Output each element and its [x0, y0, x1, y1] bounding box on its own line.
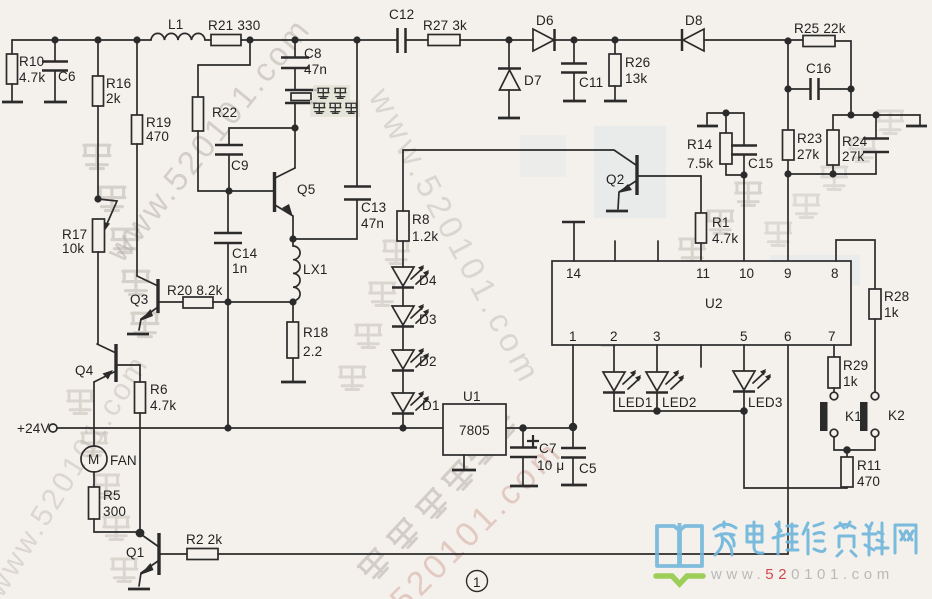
- svg-text:R22: R22: [212, 105, 237, 120]
- svg-text:C5: C5: [579, 461, 597, 476]
- wire C8 top lead: [294, 40, 296, 57]
- svg-text:R2 2k: R2 2k: [186, 532, 222, 547]
- ground under C6: [44, 101, 67, 104]
- wire R17 to Q4: [97, 252, 99, 344]
- svg-text:C6: C6: [58, 69, 76, 84]
- svg-text:D8: D8: [685, 13, 703, 28]
- wire R28 to K2: [874, 319, 876, 392]
- svg-text:7.5k: 7.5k: [687, 156, 713, 171]
- capacitor C6: [42, 62, 68, 71]
- wire R24 top rail: [833, 115, 920, 125]
- svg-text:470: 470: [146, 129, 169, 144]
- ground under R18: [281, 381, 306, 384]
- LED D2: [392, 348, 437, 371]
- wire R27 to D6 node: [460, 39, 533, 41]
- wire D4 to D3: [402, 288, 404, 306]
- svg-text:R27 3k: R27 3k: [423, 18, 467, 33]
- svg-text:14: 14: [566, 266, 582, 281]
- svg-text:R16: R16: [106, 76, 131, 91]
- svg-text:Q1: Q1: [126, 545, 144, 560]
- wire C13 bottom to Q5 emitter: [293, 200, 357, 239]
- svg-text:9: 9: [784, 266, 792, 281]
- wire R21 to node: [241, 39, 250, 41]
- svg-text:1.2k: 1.2k: [412, 229, 438, 244]
- ground at R14 top: [697, 125, 718, 128]
- figure mark 1: [467, 571, 488, 592]
- wire piezo to node: [294, 103, 296, 128]
- wire C6 top lead: [54, 40, 56, 61]
- svg-text:1k: 1k: [843, 374, 858, 389]
- svg-text:1k: 1k: [884, 305, 899, 320]
- wire pin1 to +5V node: [572, 345, 574, 427]
- pin 12 stub: [657, 241, 659, 261]
- wire C6 to ground: [54, 71, 56, 101]
- svg-text:R24: R24: [842, 134, 868, 149]
- wire join down to R11 return: [744, 411, 847, 488]
- svg-text:R17: R17: [62, 227, 87, 242]
- svg-text:C11: C11: [579, 75, 603, 90]
- wire LED3 to join: [743, 392, 745, 411]
- svg-text:FAN: FAN: [110, 453, 137, 468]
- ground under Q2: [606, 210, 628, 213]
- resistor R24: [827, 115, 868, 174]
- svg-text:4.7k: 4.7k: [150, 398, 176, 413]
- svg-text:K2: K2: [888, 408, 905, 423]
- resistor R27: [428, 35, 460, 46]
- resistor R19: [132, 115, 143, 144]
- wire R19 to Q3 collector: [136, 144, 138, 276]
- pin 4 stub: [700, 345, 702, 367]
- wire R10 to ground: [11, 84, 13, 101]
- capacitor C14: [214, 233, 242, 243]
- label piezo 陶瓷片: [310, 100, 360, 117]
- wire R16 to R17: [97, 106, 99, 199]
- resistor R16: [93, 76, 104, 106]
- LED D3: [392, 304, 437, 327]
- wire R8 to D4: [402, 241, 404, 267]
- svg-text:Q3: Q3: [130, 292, 148, 307]
- ground under R26: [604, 100, 627, 103]
- ground under C7: [510, 485, 538, 488]
- wire R20 to node: [213, 301, 293, 303]
- svg-text:Q5: Q5: [297, 182, 315, 197]
- node LED2 join: [653, 407, 661, 415]
- svg-text:C9: C9: [231, 158, 249, 173]
- svg-text:+24V: +24V: [17, 421, 50, 436]
- svg-text:U1: U1: [463, 389, 481, 404]
- wire LED1 to join: [613, 393, 615, 411]
- regulator U1: [443, 389, 506, 455]
- node LED3 join: [740, 407, 748, 415]
- wire C14 to rail: [227, 243, 229, 428]
- wire LX1 to R18: [292, 302, 294, 322]
- wire pin8 to R28: [836, 240, 875, 289]
- node C16 left: [784, 85, 791, 92]
- svg-text:4.7k: 4.7k: [712, 231, 738, 246]
- svg-text:D7: D7: [524, 73, 542, 88]
- node C6 top: [51, 36, 58, 43]
- op-amp U2 box: [552, 261, 851, 345]
- motor FAN: [81, 446, 137, 472]
- svg-text:R14: R14: [687, 137, 713, 152]
- capacitor C7: [510, 428, 564, 485]
- node LED chain on rail: [399, 424, 406, 431]
- resistor R26: [609, 40, 650, 100]
- diode D8: [682, 13, 704, 51]
- node D6 anode: [505, 36, 512, 43]
- svg-text:www.520101.com: www.520101.com: [710, 566, 894, 583]
- wire node to Q5 collector: [294, 128, 296, 168]
- svg-text:2.2: 2.2: [303, 344, 322, 359]
- capacitor C5: [561, 427, 597, 484]
- svg-text:R11: R11: [857, 458, 881, 473]
- svg-text:D4: D4: [419, 273, 437, 288]
- svg-text:LED3: LED3: [748, 395, 783, 410]
- wire pin7 to R29: [833, 345, 835, 357]
- wire pin2 to LED1: [613, 345, 615, 371]
- node R23 bottom: [784, 170, 791, 177]
- wire Q1 collector: [159, 553, 187, 555]
- LED3: [733, 369, 783, 410]
- svg-text:7805: 7805: [459, 423, 490, 438]
- wire U1 output: [506, 427, 573, 429]
- resistor R23: [783, 130, 795, 160]
- wire Q4 base to R6: [116, 365, 140, 382]
- wire pin6 down to bottom rail: [787, 345, 789, 554]
- svg-text:D2: D2: [419, 354, 437, 369]
- transistor Q3: [130, 276, 158, 330]
- wire node to R22: [198, 40, 250, 97]
- ground bar right edge: [906, 125, 927, 128]
- wire C14 top lead: [227, 191, 229, 233]
- svg-text:R26: R26: [625, 55, 650, 70]
- capacitor C13: [344, 187, 371, 200]
- node R21 out: [246, 36, 253, 43]
- node Q1 base: [136, 529, 145, 538]
- wire R19 top lead: [136, 40, 138, 115]
- wire +24V rail: [57, 427, 443, 429]
- svg-text:R1: R1: [712, 215, 730, 230]
- svg-text:Q4: Q4: [75, 363, 94, 378]
- wire top rail left: [12, 39, 151, 41]
- svg-text:3: 3: [653, 329, 661, 344]
- svg-text:R6: R6: [150, 382, 168, 397]
- diode D6: [533, 13, 555, 51]
- svg-text:2k: 2k: [106, 91, 121, 106]
- wire R26 node to D8: [615, 39, 682, 41]
- resistor R11: [841, 450, 881, 489]
- wire R16 top lead: [97, 40, 99, 76]
- transistor Q1: [126, 533, 159, 586]
- svg-text:1n: 1n: [232, 261, 247, 276]
- svg-text:C7: C7: [539, 441, 557, 456]
- transistor Q5: [275, 168, 316, 239]
- node R26 top: [611, 36, 618, 43]
- capacitor C16: [788, 61, 851, 100]
- resistor R22: [193, 97, 204, 131]
- wire R22 to Q5 base line: [197, 131, 199, 191]
- node C11 top: [570, 36, 577, 43]
- resistor R6: [135, 382, 146, 413]
- ground under U1: [463, 455, 465, 469]
- wire pin5 to LED3: [743, 345, 745, 370]
- wire R23/R24 bottom join: [788, 173, 876, 175]
- wire bottom rail to pin6: [218, 553, 788, 555]
- svg-text:13k: 13k: [625, 71, 647, 86]
- potentiometer R17 wiper arm: [98, 199, 117, 226]
- switch K1: [820, 392, 862, 437]
- switch K2: [860, 392, 905, 437]
- svg-text:R10: R10: [19, 54, 44, 69]
- svg-text:10: 10: [739, 266, 754, 281]
- svg-text:10 μ: 10 μ: [537, 458, 564, 473]
- wire pin3 to LED2: [656, 345, 658, 371]
- node R25/R23: [784, 37, 791, 44]
- svg-text:R5: R5: [103, 488, 121, 503]
- resistor R20: [183, 297, 213, 308]
- node R19 top: [133, 36, 140, 43]
- svg-text:R29: R29: [843, 358, 868, 373]
- wire C9 top lead: [229, 128, 295, 145]
- resistor R8: [397, 211, 409, 241]
- node R16 top: [94, 36, 101, 43]
- wire LED2 to join: [656, 393, 658, 411]
- wire C8 to piezo: [294, 68, 296, 90]
- svg-text:47n: 47n: [361, 216, 384, 231]
- label piezo 压电: [313, 85, 350, 101]
- wire R29 to K1: [833, 388, 835, 392]
- wire R18 to ground: [292, 358, 294, 381]
- ground under C5: [561, 484, 587, 487]
- wire R23 to pin9: [787, 160, 789, 261]
- svg-text:R21 330: R21 330: [208, 18, 260, 33]
- wire C9 down lead: [228, 155, 230, 191]
- node C9/C14 tap: [225, 187, 232, 194]
- wire Q4 emitter to FAN: [93, 382, 95, 446]
- svg-text:D3: D3: [419, 312, 437, 327]
- wire FAN to R5: [93, 472, 95, 487]
- svg-text:L1: L1: [168, 17, 183, 32]
- resistor R21: [205, 39, 211, 41]
- svg-text:R23: R23: [797, 131, 822, 146]
- potentiometer R17: [93, 219, 105, 252]
- resistor R18: [287, 322, 299, 358]
- LED1: [603, 370, 653, 410]
- svg-text:M: M: [88, 452, 99, 467]
- transistor Q2: [606, 155, 701, 209]
- wire C15 node to pin10: [743, 175, 745, 261]
- resistor R14: [687, 113, 744, 175]
- node C15 bottom: [740, 171, 747, 178]
- svg-text:7: 7: [828, 329, 836, 344]
- wire R25 to C16 right: [835, 41, 851, 115]
- svg-text:47n: 47n: [304, 62, 327, 77]
- svg-text:C8: C8: [304, 46, 322, 61]
- svg-text:300: 300: [103, 504, 126, 519]
- wire LED cathode join: [614, 410, 744, 412]
- svg-text:10k: 10k: [62, 241, 84, 256]
- svg-text:11: 11: [696, 266, 710, 281]
- pin 14: [573, 223, 575, 261]
- svg-text:R18: R18: [303, 325, 328, 340]
- node R14 top: [722, 109, 729, 116]
- pin 13 stub: [614, 241, 616, 261]
- node C13 top: [353, 36, 360, 43]
- svg-text:27k: 27k: [797, 147, 819, 162]
- svg-text:U2: U2: [705, 296, 723, 311]
- wire top-left drop: [11, 40, 13, 54]
- node C5 top: [569, 423, 577, 431]
- resistor R1: [696, 213, 707, 243]
- svg-text:C16: C16: [806, 61, 831, 76]
- LED D1: [392, 391, 440, 414]
- svg-text:8: 8: [831, 266, 839, 281]
- svg-text:1: 1: [569, 329, 577, 344]
- wire R1 to pin11: [700, 243, 702, 261]
- node C7 top: [519, 424, 527, 432]
- wire top rail mid: [250, 39, 397, 41]
- resistor R2: [187, 549, 218, 560]
- svg-text:6: 6: [784, 329, 792, 344]
- ground under Q1: [128, 588, 150, 591]
- svg-text:D1: D1: [422, 398, 440, 413]
- resistor R10: [7, 54, 18, 84]
- resistor R29: [828, 357, 840, 388]
- inductor L1: [151, 33, 205, 40]
- capacitor C15: [731, 113, 773, 175]
- wire C13 top lead: [356, 40, 358, 186]
- wire D8 to R25 node: [704, 40, 803, 89]
- wire K1/K2 bottoms join: [834, 437, 875, 450]
- svg-text:27k: 27k: [842, 149, 864, 164]
- node C16 right: [847, 85, 854, 92]
- node Q5 collector: [291, 124, 298, 131]
- wire D6 to C11 node: [554, 39, 615, 41]
- svg-text:R28: R28: [884, 289, 909, 304]
- ground under D7: [498, 117, 520, 120]
- svg-text:K1: K1: [845, 409, 862, 424]
- svg-text:Q2: Q2: [606, 172, 624, 187]
- wire Q2 collector to R1: [700, 176, 702, 213]
- node LX1 bottom: [289, 298, 296, 305]
- LED2: [646, 370, 697, 410]
- bar terminator pin14: [562, 221, 585, 224]
- wire C12 to R27: [406, 39, 428, 41]
- inductor LX1: [293, 239, 300, 302]
- capacitor C11: [561, 40, 603, 100]
- svg-text:D6: D6: [536, 13, 554, 28]
- ground under R10: [2, 101, 23, 104]
- wire R6 to Q1 base node: [139, 413, 141, 531]
- svg-text:R19: R19: [146, 115, 171, 130]
- resistor R25: [803, 36, 835, 47]
- svg-text:470: 470: [857, 474, 880, 489]
- svg-text:C12: C12: [389, 7, 414, 22]
- svg-text:R25 22k: R25 22k: [794, 21, 846, 36]
- svg-text:5: 5: [740, 329, 748, 344]
- node C8 top: [291, 36, 298, 43]
- node C14 bottom: [224, 298, 231, 305]
- wire D3 to D2: [402, 327, 404, 350]
- node R11 top: [843, 446, 851, 454]
- node C14 line on rail: [224, 424, 231, 431]
- node R17 wiper tap: [94, 195, 101, 202]
- diode D7: [498, 40, 542, 117]
- node R24 top rail: [847, 111, 854, 118]
- capacitor C17 unlabeled: [863, 115, 889, 174]
- resistor R28: [869, 289, 881, 319]
- svg-text:2: 2: [610, 329, 618, 344]
- wire Q3 base to R20: [158, 301, 183, 303]
- svg-text:1: 1: [473, 575, 481, 590]
- piezo ceramic element: [285, 90, 317, 103]
- wire R14 top net: [707, 113, 744, 124]
- wire D2 to D1: [402, 371, 404, 393]
- node R24 bottom: [829, 170, 836, 177]
- svg-text:C15: C15: [748, 156, 773, 171]
- terminal +24V: [49, 424, 57, 432]
- node Q5 emitter: [289, 235, 296, 242]
- svg-text:C14: C14: [232, 246, 258, 261]
- wire R8 to Q2 base: [403, 150, 636, 211]
- capacitor C12: [398, 28, 406, 53]
- svg-text:LED2: LED2: [662, 395, 697, 410]
- ground under C11: [563, 100, 586, 103]
- wire Q5 base line: [198, 190, 273, 192]
- LED D4: [392, 265, 437, 288]
- svg-text:C13: C13: [361, 200, 386, 215]
- transistor Q4: [75, 344, 116, 382]
- wire node to R23: [787, 89, 789, 130]
- capacitor C8: [281, 58, 309, 69]
- svg-text:LX1: LX1: [303, 262, 328, 277]
- svg-text:LED1: LED1: [618, 395, 653, 410]
- node C17 top: [872, 111, 879, 118]
- wire R5 to Q1 base: [94, 519, 138, 532]
- capacitor C9: [215, 145, 243, 155]
- wire D1 to rail: [402, 414, 404, 428]
- resistor R5: [89, 487, 100, 519]
- ground under Q3: [127, 333, 149, 336]
- svg-text:R20 8.2k: R20 8.2k: [167, 283, 223, 298]
- svg-text:4.7k: 4.7k: [19, 70, 45, 85]
- svg-text:R8: R8: [412, 212, 430, 227]
